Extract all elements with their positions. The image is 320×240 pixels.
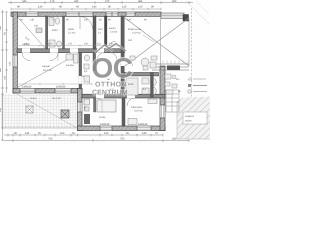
living room diagonal (18, 54, 79, 88)
dining table right room (130, 56, 157, 66)
interior vertical wall 2 (63, 16, 65, 49)
svg-text:fürdő: fürdő (52, 29, 58, 32)
door arc room2 (50, 53, 58, 61)
svg-text:épület: épület (185, 120, 192, 123)
svg-text:380: 380 (0, 25, 2, 30)
svg-text:hálószoba: hálószoba (131, 106, 143, 109)
svg-text:fedett terasz: fedett terasz (128, 28, 142, 31)
terrace area label (128, 28, 142, 42)
window top wall 3 (106, 12, 118, 16)
svg-text:km: km (176, 78, 179, 81)
svg-text:225: 225 (48, 43, 53, 46)
ground hatch bottom-right (177, 97, 210, 140)
interior dim row (17, 44, 120, 46)
small dims above bottom-left wall (22, 85, 148, 126)
window top wall 1 (26, 12, 38, 16)
svg-text:140: 140 (38, 6, 43, 9)
top dimension line (8, 1, 193, 4)
svg-text:meglévő: meglévő (185, 115, 195, 118)
window right wall bottom (160, 105, 164, 118)
svg-text:OTTHON: OTTHON (95, 82, 127, 89)
svg-text:270: 270 (105, 0, 110, 3)
svg-text:280: 280 (172, 0, 177, 3)
interior vertical wall 1 (46, 16, 48, 49)
secondary top dimension line (11, 8, 161, 11)
roof diagonal top-right (186, 1, 209, 24)
right exterior wall (160, 66, 165, 131)
terrace corner post (183, 15, 189, 22)
door arc bedroom1 (96, 98, 104, 106)
svg-text:5,2 m2: 5,2 m2 (68, 31, 76, 34)
closet partition bedroom1 (94, 98, 96, 112)
interior vertical wall kitchen/corridor (79, 53, 82, 89)
terrace drain mark (26, 106, 33, 113)
tiny labels bath wc (107, 78, 147, 91)
left dimension numbers (0, 25, 7, 112)
bath partition wall (151, 73, 154, 98)
door arc room3 (70, 53, 78, 61)
window step wall (78, 102, 82, 112)
interior vertical wall bedrooms (122, 98, 125, 126)
svg-text:330: 330 (74, 0, 79, 3)
label box on hatch (183, 112, 207, 124)
svg-text:120/140: 120/140 (100, 123, 110, 126)
bedroom2 label (131, 106, 143, 113)
svg-text:120: 120 (104, 132, 109, 135)
door arc dining (125, 58, 133, 66)
bath fixtures right (126, 62, 156, 95)
dresser bedroom2 (128, 119, 137, 125)
interior long vertical wall (121, 16, 124, 97)
svg-text:10,9 m2: 10,9 m2 (134, 110, 143, 113)
svg-text:140: 140 (92, 6, 97, 9)
svg-text:140/140: 140/140 (22, 85, 32, 88)
svg-text:110: 110 (97, 43, 101, 46)
svg-text:100: 100 (84, 19, 89, 22)
bottom-left exterior wall (13, 89, 82, 94)
svg-text:21,9 m2: 21,9 m2 (132, 32, 141, 35)
legend right (188, 78, 207, 94)
watermark roof (95, 44, 126, 54)
svg-text:OC: OC (92, 53, 133, 84)
door arc room1 (22, 53, 30, 61)
watermark (92, 44, 133, 97)
wardrobe bedroom2 (148, 99, 157, 104)
svg-text:230: 230 (24, 43, 29, 46)
terrace top edge band (161, 13, 189, 21)
left exterior wall (13, 12, 17, 93)
utility marks right of bath (165, 74, 177, 94)
svg-text:140: 140 (30, 19, 35, 22)
svg-text:160/140: 160/140 (56, 85, 66, 88)
window bottom wall 1 (100, 126, 112, 130)
dim numbers below top wall (20, 19, 147, 22)
svg-text:160: 160 (60, 132, 65, 135)
terrace X diagonals (125, 16, 189, 66)
window top wall 4 (126, 12, 135, 16)
svg-text:150: 150 (84, 43, 89, 46)
top exterior wall (11, 12, 161, 16)
left dimension line (1, 10, 8, 141)
svg-text:140: 140 (34, 25, 39, 28)
svg-text:2,3 m2: 2,3 m2 (110, 30, 118, 33)
chimney block (61, 110, 69, 118)
svg-text:170: 170 (50, 0, 55, 3)
tiled terrace bottom-left (2, 94, 77, 128)
small text marks middle (42, 27, 118, 73)
interior dim row lower (17, 83, 92, 85)
interior horizontal wall lower (82, 94, 165, 98)
interior vertical wall bath (93, 53, 96, 71)
window bottom-left wall 2 (55, 89, 71, 93)
wc fixtures room small (49, 18, 62, 48)
window left wall (13, 55, 17, 67)
corridor arc (110, 53, 117, 60)
svg-text:700: 700 (120, 138, 125, 141)
svg-text:150: 150 (128, 39, 133, 42)
svg-text:330: 330 (0, 107, 2, 112)
diagonal in top-left room (18, 17, 46, 48)
svg-text:340: 340 (22, 0, 27, 3)
svg-text:750: 750 (48, 138, 53, 141)
svg-text:16,4 m2: 16,4 m2 (52, 97, 61, 100)
exterior steps back door (166, 90, 179, 112)
door arc hall (97, 53, 104, 60)
step wall (building edge mid-bottom) (78, 89, 83, 131)
terrace bottom steps (152, 64, 189, 70)
svg-text:140: 140 (84, 105, 87, 110)
small table top-left room (36, 28, 42, 33)
roof dashed line right (191, 8, 193, 98)
svg-text:26,4 m2: 26,4 m2 (43, 69, 52, 72)
door arc bedroom2 (127, 98, 135, 106)
svg-text:360: 360 (0, 67, 2, 72)
entry door arc (80, 17, 93, 30)
svg-text:280: 280 (172, 138, 177, 141)
interior horizontal wall upper (17, 49, 125, 53)
window bottom wall 2 (137, 126, 151, 130)
entry glazed door top wall (66, 12, 93, 16)
terrace diagonal (17, 94, 77, 128)
dark corner block step (84, 114, 90, 124)
svg-text:CENTRUM: CENTRUM (92, 90, 128, 97)
wc fixtures right of step wall (84, 99, 90, 111)
svg-text:385: 385 (138, 0, 143, 3)
svg-text:120: 120 (122, 6, 127, 9)
kitchen counter (66, 54, 90, 82)
svg-text:120: 120 (127, 19, 132, 22)
tick marks above steps (163, 61, 187, 64)
window bottom-left wall 1 (20, 89, 35, 93)
bottom dimension lines (4, 134, 189, 142)
svg-text:terasz: terasz (30, 97, 37, 100)
svg-text:140: 140 (142, 132, 147, 135)
svg-text:szoba: szoba (99, 116, 106, 119)
interior vertical wall 4 (105, 16, 107, 46)
interior horizontal wall bath right (125, 73, 159, 76)
svg-text:170: 170 (68, 43, 73, 46)
svg-text:140: 140 (9, 61, 12, 66)
svg-text:140: 140 (4, 75, 7, 80)
svg-text:145: 145 (25, 132, 30, 135)
bottom exterior wall right part (78, 126, 166, 131)
interior vertical wall 3 (93, 16, 96, 49)
svg-text:nappali: nappali (42, 65, 50, 68)
svg-text:150: 150 (138, 6, 143, 9)
svg-text:140/140: 140/140 (138, 123, 148, 126)
svg-text:konyha: konyha (66, 64, 74, 67)
bed bedroom1 (97, 100, 116, 119)
